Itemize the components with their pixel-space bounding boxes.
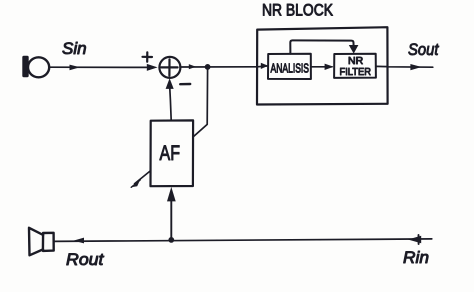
svg-text:Rin: Rin (403, 248, 429, 267)
svg-text:Rout: Rout (66, 250, 105, 269)
svg-text:Sout: Sout (408, 40, 440, 59)
svg-text:AF: AF (160, 142, 181, 165)
svg-text:Sin: Sin (62, 39, 87, 58)
svg-text:ANALISIS: ANALISIS (271, 60, 310, 75)
svg-text:FILTER: FILTER (340, 66, 372, 78)
svg-text:NR BLOCK: NR BLOCK (262, 1, 334, 20)
